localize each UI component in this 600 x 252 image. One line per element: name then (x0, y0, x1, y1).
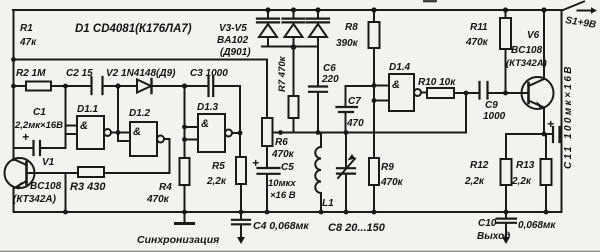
svg-text:47к: 47к (19, 37, 37, 48)
svg-text:+: + (22, 130, 29, 144)
svg-text:+: + (547, 117, 554, 131)
svg-text:D1 CD4081(К176ЛА7): D1 CD4081(К176ЛА7) (75, 23, 192, 35)
svg-text:0,068мк: 0,068мк (518, 220, 556, 231)
svg-text:Синхронизация: Синхронизация (137, 234, 219, 246)
svg-text:R13: R13 (516, 160, 535, 171)
svg-text:BC108: BC108 (30, 181, 62, 192)
svg-text:C3 1000: C3 1000 (190, 68, 228, 79)
svg-text:D1.3: D1.3 (197, 102, 219, 113)
svg-text:BC108: BC108 (511, 45, 543, 56)
svg-text:C6: C6 (323, 63, 336, 74)
svg-text:R5: R5 (212, 161, 225, 172)
svg-text:R12: R12 (470, 160, 489, 171)
svg-text:BA102: BA102 (217, 35, 249, 46)
svg-text:(КТ342А): (КТ342А) (506, 58, 547, 69)
svg-text:×16 В: ×16 В (270, 190, 296, 201)
svg-text:&: & (80, 120, 88, 132)
svg-text:470: 470 (346, 118, 364, 129)
svg-text:V6: V6 (527, 30, 540, 41)
svg-text:C4 0,068мк: C4 0,068мк (253, 220, 309, 232)
svg-text:2,2к: 2,2к (464, 176, 485, 187)
svg-text:C1: C1 (33, 107, 46, 118)
svg-text:R2 1M: R2 1M (16, 68, 46, 79)
svg-text:С10: С10 (478, 218, 497, 229)
svg-text:R1: R1 (20, 23, 33, 34)
svg-text:V1: V1 (42, 157, 55, 168)
svg-text:R10 10к: R10 10к (418, 77, 456, 88)
svg-text:D1.4: D1.4 (389, 62, 411, 73)
svg-text:D1.2: D1.2 (129, 108, 151, 119)
svg-text:2,2к: 2,2к (511, 176, 532, 187)
svg-text:D1.1: D1.1 (77, 104, 99, 115)
svg-text:R8: R8 (345, 22, 358, 33)
svg-text:R9: R9 (381, 162, 394, 173)
svg-text:R4: R4 (159, 182, 172, 193)
svg-text:470к: 470к (465, 37, 489, 48)
svg-text:R3 430: R3 430 (70, 181, 106, 193)
svg-text:L1: L1 (322, 198, 334, 209)
svg-text:470к: 470к (380, 177, 404, 188)
svg-text:C9: C9 (485, 100, 498, 111)
svg-text:C5: C5 (281, 162, 294, 173)
svg-text:&: & (392, 79, 400, 91)
svg-text:390к: 390к (336, 38, 359, 49)
svg-text:&: & (201, 118, 209, 130)
svg-text:R11: R11 (470, 22, 488, 33)
svg-text:1000: 1000 (483, 111, 506, 122)
svg-text:(КТ342А): (КТ342А) (13, 194, 57, 205)
svg-text:&: & (133, 126, 141, 138)
svg-text:(Д901): (Д901) (220, 47, 251, 58)
svg-text:Выход: Выход (477, 231, 510, 242)
svg-text:R7 470к: R7 470к (277, 55, 288, 92)
svg-text:V3-V5: V3-V5 (219, 23, 247, 34)
svg-text:470к: 470к (271, 149, 295, 160)
svg-text:10мкх: 10мкх (268, 178, 296, 189)
svg-text:C7: C7 (348, 96, 361, 107)
svg-text:R6: R6 (275, 137, 288, 148)
svg-text:C2 15: C2 15 (66, 68, 93, 79)
svg-text:+: + (252, 156, 259, 170)
svg-text:C8 20...150: C8 20...150 (328, 222, 386, 234)
svg-text:2,2к: 2,2к (206, 176, 227, 187)
svg-text:V2 1N4148(Д9): V2 1N4148(Д9) (106, 68, 176, 79)
svg-text:С11 100мк×16В: С11 100мк×16В (563, 64, 574, 169)
svg-text:470к: 470к (146, 194, 170, 205)
svg-text:220: 220 (321, 74, 339, 85)
